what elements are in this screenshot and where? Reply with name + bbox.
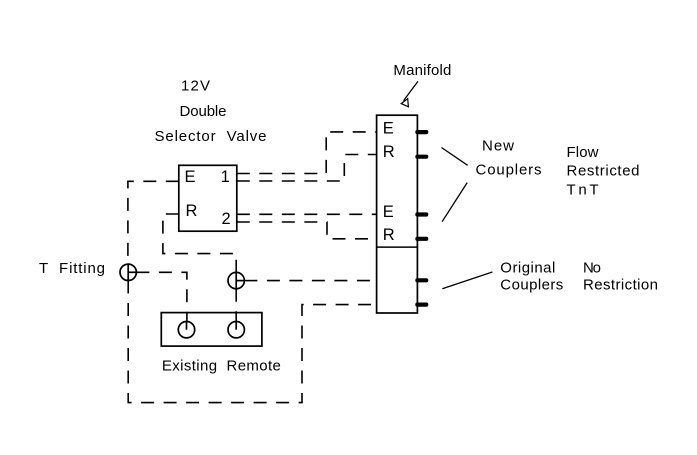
svg-text:Restriction: Restriction xyxy=(583,276,658,293)
coupler tick 3 xyxy=(415,212,428,216)
svg-text:R: R xyxy=(383,226,395,244)
svg-text:TnT: TnT xyxy=(567,182,599,199)
label Original Couplers xyxy=(500,259,563,293)
manifold pointer open arrowhead xyxy=(401,99,408,107)
wire T fitting right then down to remote left port xyxy=(136,272,187,321)
second T fitting circle xyxy=(228,272,244,288)
svg-text:Original: Original xyxy=(500,259,555,276)
pointer line to new coupler (upper) xyxy=(442,148,468,166)
svg-text:Restricted: Restricted xyxy=(567,163,640,180)
wire valve E port left and down to T fitting xyxy=(128,181,179,264)
svg-text:No: No xyxy=(583,259,601,276)
wire valve port1 upper to manifold E row xyxy=(237,132,377,174)
wire T fitting down, bottom rail, riser to manifold row 6 xyxy=(128,281,376,403)
svg-text:Double: Double xyxy=(180,103,227,120)
svg-text:Manifold: Manifold xyxy=(393,62,451,79)
T fitting circle xyxy=(120,264,136,280)
existing remote box xyxy=(161,313,262,347)
manifold divider line xyxy=(377,246,418,248)
wire valve R port stub down and over to second fitting xyxy=(163,214,236,273)
remote right port circle xyxy=(228,322,244,338)
svg-text:R: R xyxy=(383,143,395,161)
svg-text:Flow: Flow xyxy=(567,144,599,161)
svg-text:T Fitting: T Fitting xyxy=(39,260,105,277)
coupler tick 1 xyxy=(415,130,428,134)
coupler tick 6 xyxy=(415,303,428,307)
svg-text:Selector Valve: Selector Valve xyxy=(155,128,267,145)
wire valve port2 upper straight to manifold mid E row xyxy=(237,213,377,215)
svg-text:Existing Remote: Existing Remote xyxy=(162,357,281,374)
manifold box xyxy=(377,115,418,313)
wire second fitting to manifold original row 5 xyxy=(244,280,376,282)
label New Couplers xyxy=(476,138,542,179)
svg-text:E: E xyxy=(383,203,394,221)
coupler tick 4 xyxy=(415,237,428,241)
svg-text:New: New xyxy=(482,138,514,155)
selector valve box xyxy=(179,165,237,231)
pointer line to original coupler xyxy=(442,272,492,289)
wire valve port1 lower to manifold R row xyxy=(237,155,377,182)
label 12V Double Selector Valve xyxy=(155,77,267,145)
svg-text:12V: 12V xyxy=(181,77,210,94)
svg-text:R: R xyxy=(186,202,198,220)
wire second fitting down to remote right port xyxy=(235,289,237,322)
manifold pointer line xyxy=(404,81,418,100)
svg-text:E: E xyxy=(383,119,394,137)
label Flow Restricted TnT xyxy=(567,144,640,198)
label No Restriction xyxy=(583,259,658,293)
wire valve port2 lower to manifold mid R row xyxy=(237,222,377,239)
svg-text:Couplers: Couplers xyxy=(476,161,542,178)
svg-text:E: E xyxy=(185,168,196,186)
pointer line to new coupler (lower) xyxy=(442,183,467,222)
svg-text:1: 1 xyxy=(221,168,230,186)
coupler tick 5 xyxy=(415,278,428,282)
coupler tick 2 xyxy=(415,155,428,159)
svg-text:Couplers: Couplers xyxy=(500,276,563,293)
remote left port circle xyxy=(178,322,194,338)
svg-text:2: 2 xyxy=(222,210,231,228)
